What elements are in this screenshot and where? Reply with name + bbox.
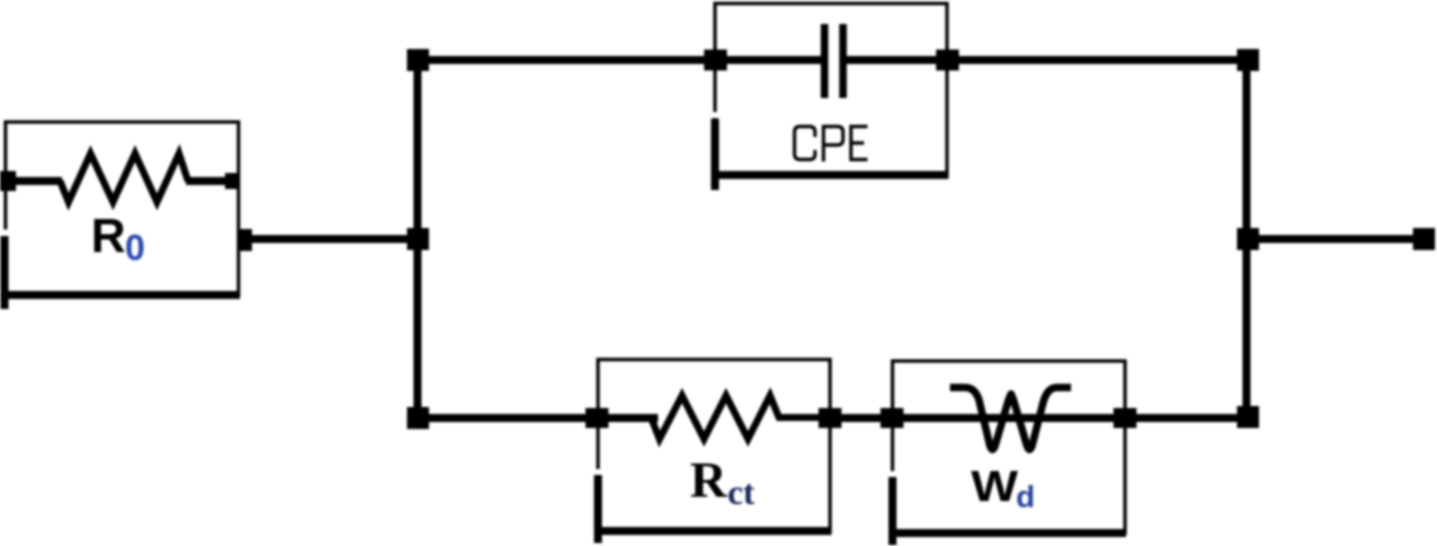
box CPE thick lower-left edge [711,119,719,191]
label Rct [690,453,755,512]
R0 right terminal pad [225,173,239,189]
node R0 output [240,229,252,251]
box Wd thick lower-left edge [889,477,897,545]
wire middle row right (to output terminal) [1248,235,1424,243]
box Rct [598,360,830,532]
wire bottom row left segment [418,414,658,422]
node bottom-right junction [1237,406,1259,428]
wire between Rct and Wd [826,414,896,422]
Wd right terminal pad [1114,408,1137,428]
label R0 [91,210,145,268]
capacitor CPE [704,4,959,191]
R0 left lead wire [0,177,62,185]
label CPE [795,127,868,162]
box R0 thick lower-left edge [1,236,9,309]
Warburg element Wd [881,361,1137,545]
capacitor right plate [839,24,847,98]
Wd through wire [892,414,1125,422]
node middle-right junction [1237,228,1259,250]
wire left vertical branch [414,56,422,421]
box R0 left-edge gap [1,230,10,237]
svg-text:R: R [690,453,728,509]
CPE right terminal pad [936,50,959,71]
svg-text:R: R [91,210,126,263]
box Wd thick bottom edge [889,529,1126,537]
svg-text:ct: ct [728,473,756,512]
node middle-left junction [407,228,429,250]
Rct zigzag [599,396,829,440]
wire bottom row right segment [1125,414,1248,422]
terminal right output [1413,228,1435,250]
Rct left terminal pad [586,408,609,428]
capacitor left plate [821,24,829,98]
box Rct thick lower-left edge [594,475,602,543]
resistor R0 [0,122,240,309]
box CPE [715,4,947,176]
resistor Rct [586,360,842,544]
wire R0 to branch node (middle row left) [246,235,418,243]
box CPE left-edge gap [711,112,719,118]
box Rct thick bottom edge [595,527,832,535]
label Wd [971,462,1035,514]
wire right vertical branch [1243,56,1251,421]
svg-text:0: 0 [125,227,145,268]
wire top row right segment [845,56,1248,64]
R0 zigzag [60,154,188,203]
R0 left terminal pad [0,171,16,191]
node bottom-left junction [407,407,429,429]
box R0 [6,122,239,295]
node top-right junction [1237,49,1259,71]
Warburg W symbol [950,388,1071,450]
R0 right lead wire [186,177,232,185]
box Wd [893,361,1126,533]
CPE left terminal pad [704,50,727,71]
box R0 thick bottom edge [1,291,240,299]
svg-text:W: W [971,462,1019,511]
Rct right terminal pad [819,408,842,428]
wire top row left segment [418,56,821,64]
svg-text:d: d [1016,479,1035,514]
box Rct left-edge gap [594,469,602,475]
box CPE thick bottom edge [712,171,949,179]
Wd left terminal pad [881,408,904,428]
node top-left junction [407,49,429,71]
box Wd left-edge gap [889,471,897,477]
